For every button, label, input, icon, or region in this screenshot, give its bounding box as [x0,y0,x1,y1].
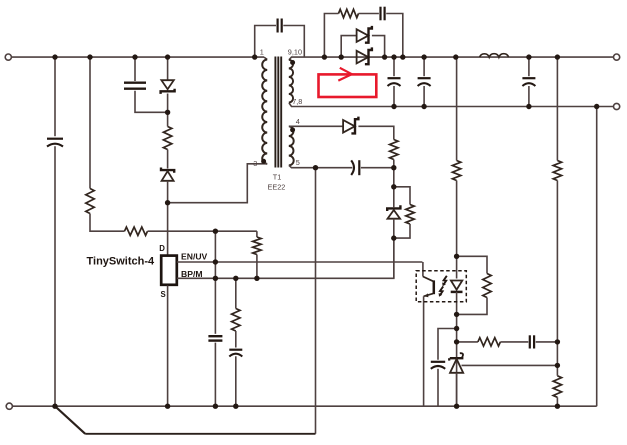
svg-text:7,8: 7,8 [292,97,302,106]
svg-text:S: S [161,290,166,299]
svg-text:EE22: EE22 [268,182,286,191]
svg-text:T1: T1 [273,173,282,182]
svg-text:TinySwitch-4: TinySwitch-4 [87,256,156,268]
svg-text:EN/UV: EN/UV [181,251,208,261]
svg-text:5: 5 [296,158,300,167]
svg-text:D: D [159,244,165,253]
svg-text:BP/M: BP/M [181,269,202,279]
svg-text:1: 1 [260,48,264,57]
svg-text:3: 3 [253,159,257,168]
svg-text:9,10: 9,10 [288,48,302,57]
svg-text:4: 4 [296,117,300,126]
